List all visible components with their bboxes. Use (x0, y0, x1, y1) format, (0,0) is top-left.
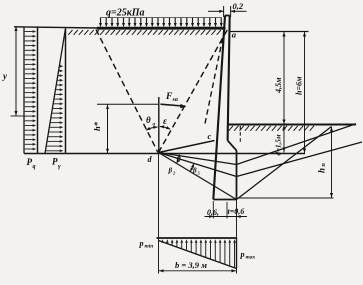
svg-text:b = 3,9 м: b = 3,9 м (175, 260, 207, 270)
ray d to footing corner (159, 153, 237, 200)
svg-text:0,2: 0,2 (233, 1, 244, 11)
ray d-R1 (159, 153, 237, 165)
svg-text:c: c (208, 131, 212, 141)
wire d to c (159, 141, 215, 153)
extension line left b (158, 154, 160, 274)
dimension 0,6 and t=0,6 (205, 201, 248, 219)
dimension b=3,9m (159, 269, 237, 272)
bearing pressure diagram pmin-pmax (157, 238, 237, 269)
svg-text:0,6,: 0,6, (207, 208, 219, 217)
dimension h_p (239, 127, 334, 199)
svg-text:ε: ε (163, 117, 167, 127)
svg-text:θ: θ (146, 115, 151, 125)
angle arc epsilon (160, 125, 170, 129)
svg-text:h: h (317, 168, 327, 173)
wire vertical reference above d (158, 97, 160, 154)
wire V1 rising line (237, 124, 357, 165)
wire baseline through d (24, 153, 305, 155)
angle arc beta5 (190, 163, 194, 171)
wire V2 rising line (237, 142, 363, 177)
svg-text:max: max (246, 255, 256, 261)
svg-text:γ: γ (58, 163, 61, 170)
svg-text:t=0,6: t=0,6 (228, 207, 245, 216)
wire top reference line at a level (230, 31, 309, 33)
pressure diagram Pq (uniform) (24, 28, 38, 154)
ground hatch under surcharge (68, 30, 221, 35)
dimension line 4,5m / d=1,5m (282, 32, 285, 153)
wire footing corner to ground (237, 127, 332, 200)
svg-text:4,5м: 4,5м (274, 77, 283, 94)
svg-text:β: β (168, 167, 173, 175)
svg-text:β: β (192, 167, 197, 175)
svg-text:h=6м: h=6м (295, 76, 304, 95)
svg-text:sa: sa (172, 97, 178, 103)
svg-text:p: p (240, 250, 245, 259)
svg-text:o: o (153, 122, 156, 128)
svg-text:h*: h* (92, 121, 102, 131)
excavation ground line right (228, 125, 356, 131)
dimension line h=6m (303, 32, 306, 154)
svg-text:p: p (139, 239, 144, 248)
dimension 0,2 wall top width (208, 6, 247, 17)
distributed load q arrows (99, 18, 223, 28)
retaining wall outline (213, 16, 236, 200)
force arrow Fsa (161, 104, 187, 108)
wire surcharge bearing line (thick) (97, 27, 226, 30)
svg-text:q: q (33, 164, 36, 170)
angle arc theta0 (146, 126, 158, 131)
pressure diagram Pgamma (triangular) (45, 29, 66, 154)
svg-text:q=25кПа: q=25кПа (106, 8, 145, 19)
dashed slip plane d to a (159, 30, 228, 153)
wire backfill surface line (14, 27, 97, 28)
svg-text:min: min (145, 244, 154, 250)
dashed vertical at footing front (239, 126, 241, 142)
dashed slip plane d to load start (96, 30, 158, 153)
extension line right b (236, 200, 238, 274)
dashed line from wall top corner (205, 29, 225, 124)
dimension y (left) (11, 26, 26, 116)
ray d-R2 (159, 153, 237, 177)
svg-text:d=1,5м: d=1,5м (275, 134, 283, 155)
dimension h* (97, 104, 159, 153)
angle arc theta1 (177, 154, 180, 163)
